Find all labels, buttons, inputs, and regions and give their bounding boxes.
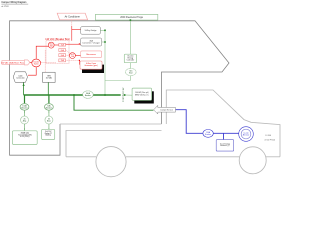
- svg-text:Microwave: Microwave: [86, 54, 96, 56]
- svg-text:ds 7/7/09: ds 7/7/09: [1, 6, 8, 8]
- svg-text:Camper Service: Camper Service: [160, 110, 173, 112]
- svg-text:(V10 PSD): (V10 PSD): [265, 139, 276, 141]
- svg-text:On-Line: On-Line: [127, 56, 133, 58]
- svg-text:3-Way Fridge: 3-Way Fridge: [85, 30, 98, 32]
- svg-text:4.0kw Onan: 4.0kw Onan: [86, 63, 96, 65]
- svg-text:Breaker: Breaker: [46, 107, 53, 109]
- svg-text:Breaker: Breaker: [21, 107, 28, 109]
- svg-text:in 2P (220#): in 2P (220#): [20, 136, 30, 138]
- svg-text:MSW 110Vac inv: MSW 110Vac inv: [135, 95, 149, 97]
- svg-text:1000W (2kw pk): 1000W (2kw pk): [135, 92, 149, 94]
- svg-text:F-350: F-350: [265, 135, 271, 137]
